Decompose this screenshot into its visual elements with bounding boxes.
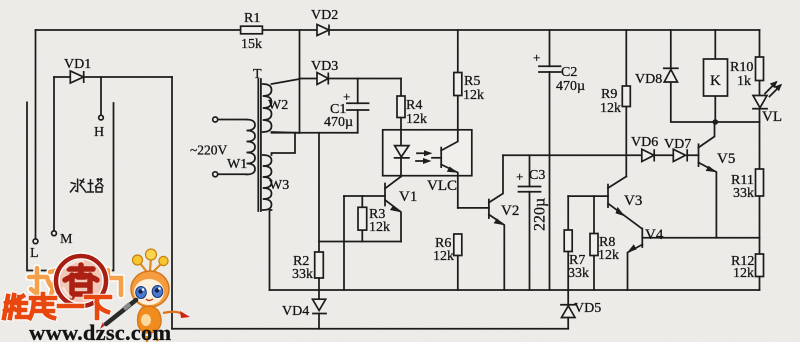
resistor R8 [593,196,595,290]
resistor R12 [756,254,764,277]
svg-text:V5: V5 [717,151,735,167]
relay K [714,30,716,122]
svg-text:~220V: ~220V [190,143,228,158]
transistor opto phototransistor [440,148,442,168]
svg-text:VD1: VD1 [64,57,91,72]
diode VD2 [317,25,329,36]
magnifier [56,256,106,306]
node junction dot [713,119,719,125]
wire right rail [759,30,761,290]
svg-text:33k: 33k [292,267,313,282]
svg-text:VD2: VD2 [311,8,338,23]
water tower tank [27,102,114,270]
wire V1 base drop [343,196,345,290]
svg-text:VD6: VD6 [631,135,658,150]
svg-text:V1: V1 [399,189,417,205]
svg-text:470µ: 470µ [324,115,353,130]
transistor V2 [488,200,490,218]
resistor R2 [315,252,324,278]
transistor V4 [641,229,643,248]
LED VL [753,96,767,108]
svg-text:12k: 12k [406,112,427,127]
svg-text:M: M [60,232,73,247]
svg-text:W3: W3 [269,178,289,193]
resistor R7 [567,196,569,290]
svg-text:R1: R1 [244,11,260,26]
svg-text:R9: R9 [601,87,617,102]
transformer W3 winding [263,155,272,210]
svg-text:1k: 1k [737,74,751,89]
diode VD3 [300,78,402,80]
svg-text:+: + [533,50,540,65]
svg-text:V3: V3 [624,193,642,209]
resistor R10 [756,57,764,81]
svg-text:K: K [710,73,721,89]
resistor R11 [756,169,764,196]
svg-text:VD7: VD7 [664,137,691,152]
svg-text:W1: W1 [227,157,247,172]
mascot [100,249,190,342]
diode VD8 [671,30,760,122]
svg-text:W2: W2 [268,98,288,113]
wire bottom return [172,328,568,330]
svg-text:VD3: VD3 [311,59,338,74]
capacitor C2 [549,30,551,290]
svg-text:VD5: VD5 [574,301,601,316]
svg-text:R10: R10 [730,60,753,75]
svg-text:R4: R4 [406,98,422,113]
svg-text:VL: VL [762,109,782,125]
diode VD4 [318,290,320,329]
维库一下 [4,294,110,318]
svg-text:12k: 12k [598,248,619,263]
svg-text:220µ: 220µ [532,198,549,231]
svg-text:C2: C2 [561,65,577,80]
svg-text:12k: 12k [733,266,754,281]
svg-text:15k: 15k [241,37,262,52]
svg-text:H: H [94,125,104,140]
svg-text:33k: 33k [568,266,589,281]
diode VD1 [70,71,83,83]
wire left drop to L [35,30,37,239]
svg-text:VD4: VD4 [282,304,309,319]
resistor R4 [400,79,402,130]
wire mid rail y290 [270,289,760,291]
svg-text:VLC: VLC [427,178,457,194]
node M electrode [53,77,55,231]
transistor V5 [698,144,700,166]
node L [33,239,38,244]
wire VD2 junction drop [299,30,301,133]
transistor V3 [607,185,609,208]
svg-text:12k: 12k [433,249,454,264]
svg-text:T: T [253,67,262,82]
wire collector bus y155 [503,154,699,156]
watermark [4,249,190,342]
resistor R5 [457,30,459,73]
opto light arrows [416,153,429,161]
node H electrode [100,77,102,115]
transistor V1 [384,184,386,206]
片 glyph [101,270,121,295]
resistor R3 [361,196,363,242]
svg-text:VD8: VD8 [635,72,662,87]
resistor R1 [241,26,263,34]
svg-text:R5: R5 [464,74,480,89]
svg-text:V4: V4 [645,227,664,243]
capacitor C3 [529,155,531,290]
transformer W1 primary winding [247,120,256,175]
resistor R9 [625,30,627,177]
wire VD1 row [54,76,172,78]
diode VD7 [673,149,687,161]
wire R2 branch [318,133,320,252]
svg-text:33k: 33k [733,186,754,201]
水塔 label [70,178,104,193]
transformer W2 secondary winding [263,84,272,132]
optocoupler VLC box [383,130,472,176]
svg-text:12k: 12k [600,101,621,116]
svg-text:470µ: 470µ [556,79,585,94]
diode VD5 [567,290,569,329]
svg-text:www.dzsc.com: www.dzsc.com [29,320,171,342]
svg-text:L: L [30,246,39,261]
transformer T core [258,79,261,211]
wire V1 emitter rail [319,241,401,243]
svg-text:12k: 12k [369,220,390,235]
svg-text:V2: V2 [501,203,519,219]
wire right side drop [171,77,173,329]
wire top rail [36,29,760,31]
wire W2 bottom to C1 [272,132,358,134]
svg-text:12k: 12k [463,88,484,103]
capacitor C1 [357,79,359,133]
diode opto LED [400,130,402,177]
svg-text:+: + [516,169,523,184]
svg-text:C3: C3 [529,168,545,183]
resistor R6 [454,234,462,256]
找 glyph [29,268,63,295]
diode VD6 [642,149,654,161]
